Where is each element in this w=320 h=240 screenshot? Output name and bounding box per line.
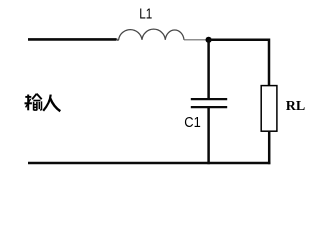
wire C1 bottom leg [207,107,210,164]
wire RL bottom leg [268,131,271,164]
svg-text:C1: C1 [184,113,201,130]
char 入 [43,95,51,111]
char 输 left radical [25,96,31,98]
wire node to RL top [209,40,269,86]
node junction dot [206,37,212,43]
svg-text:L1: L1 [139,5,152,22]
char 输 right part body [34,102,37,111]
wire input top segment [28,38,117,41]
svg-text:RL: RL [286,99,305,114]
wire bottom return [28,162,270,165]
label 输入 (input) drawn as paths [25,94,61,112]
char 输 right part roof [32,94,42,100]
inductor L1 [117,29,184,40]
resistor RL [261,86,277,132]
capacitor C1 [191,99,227,107]
wire inductor to node [184,39,206,41]
wire node to C1 top [207,40,210,99]
